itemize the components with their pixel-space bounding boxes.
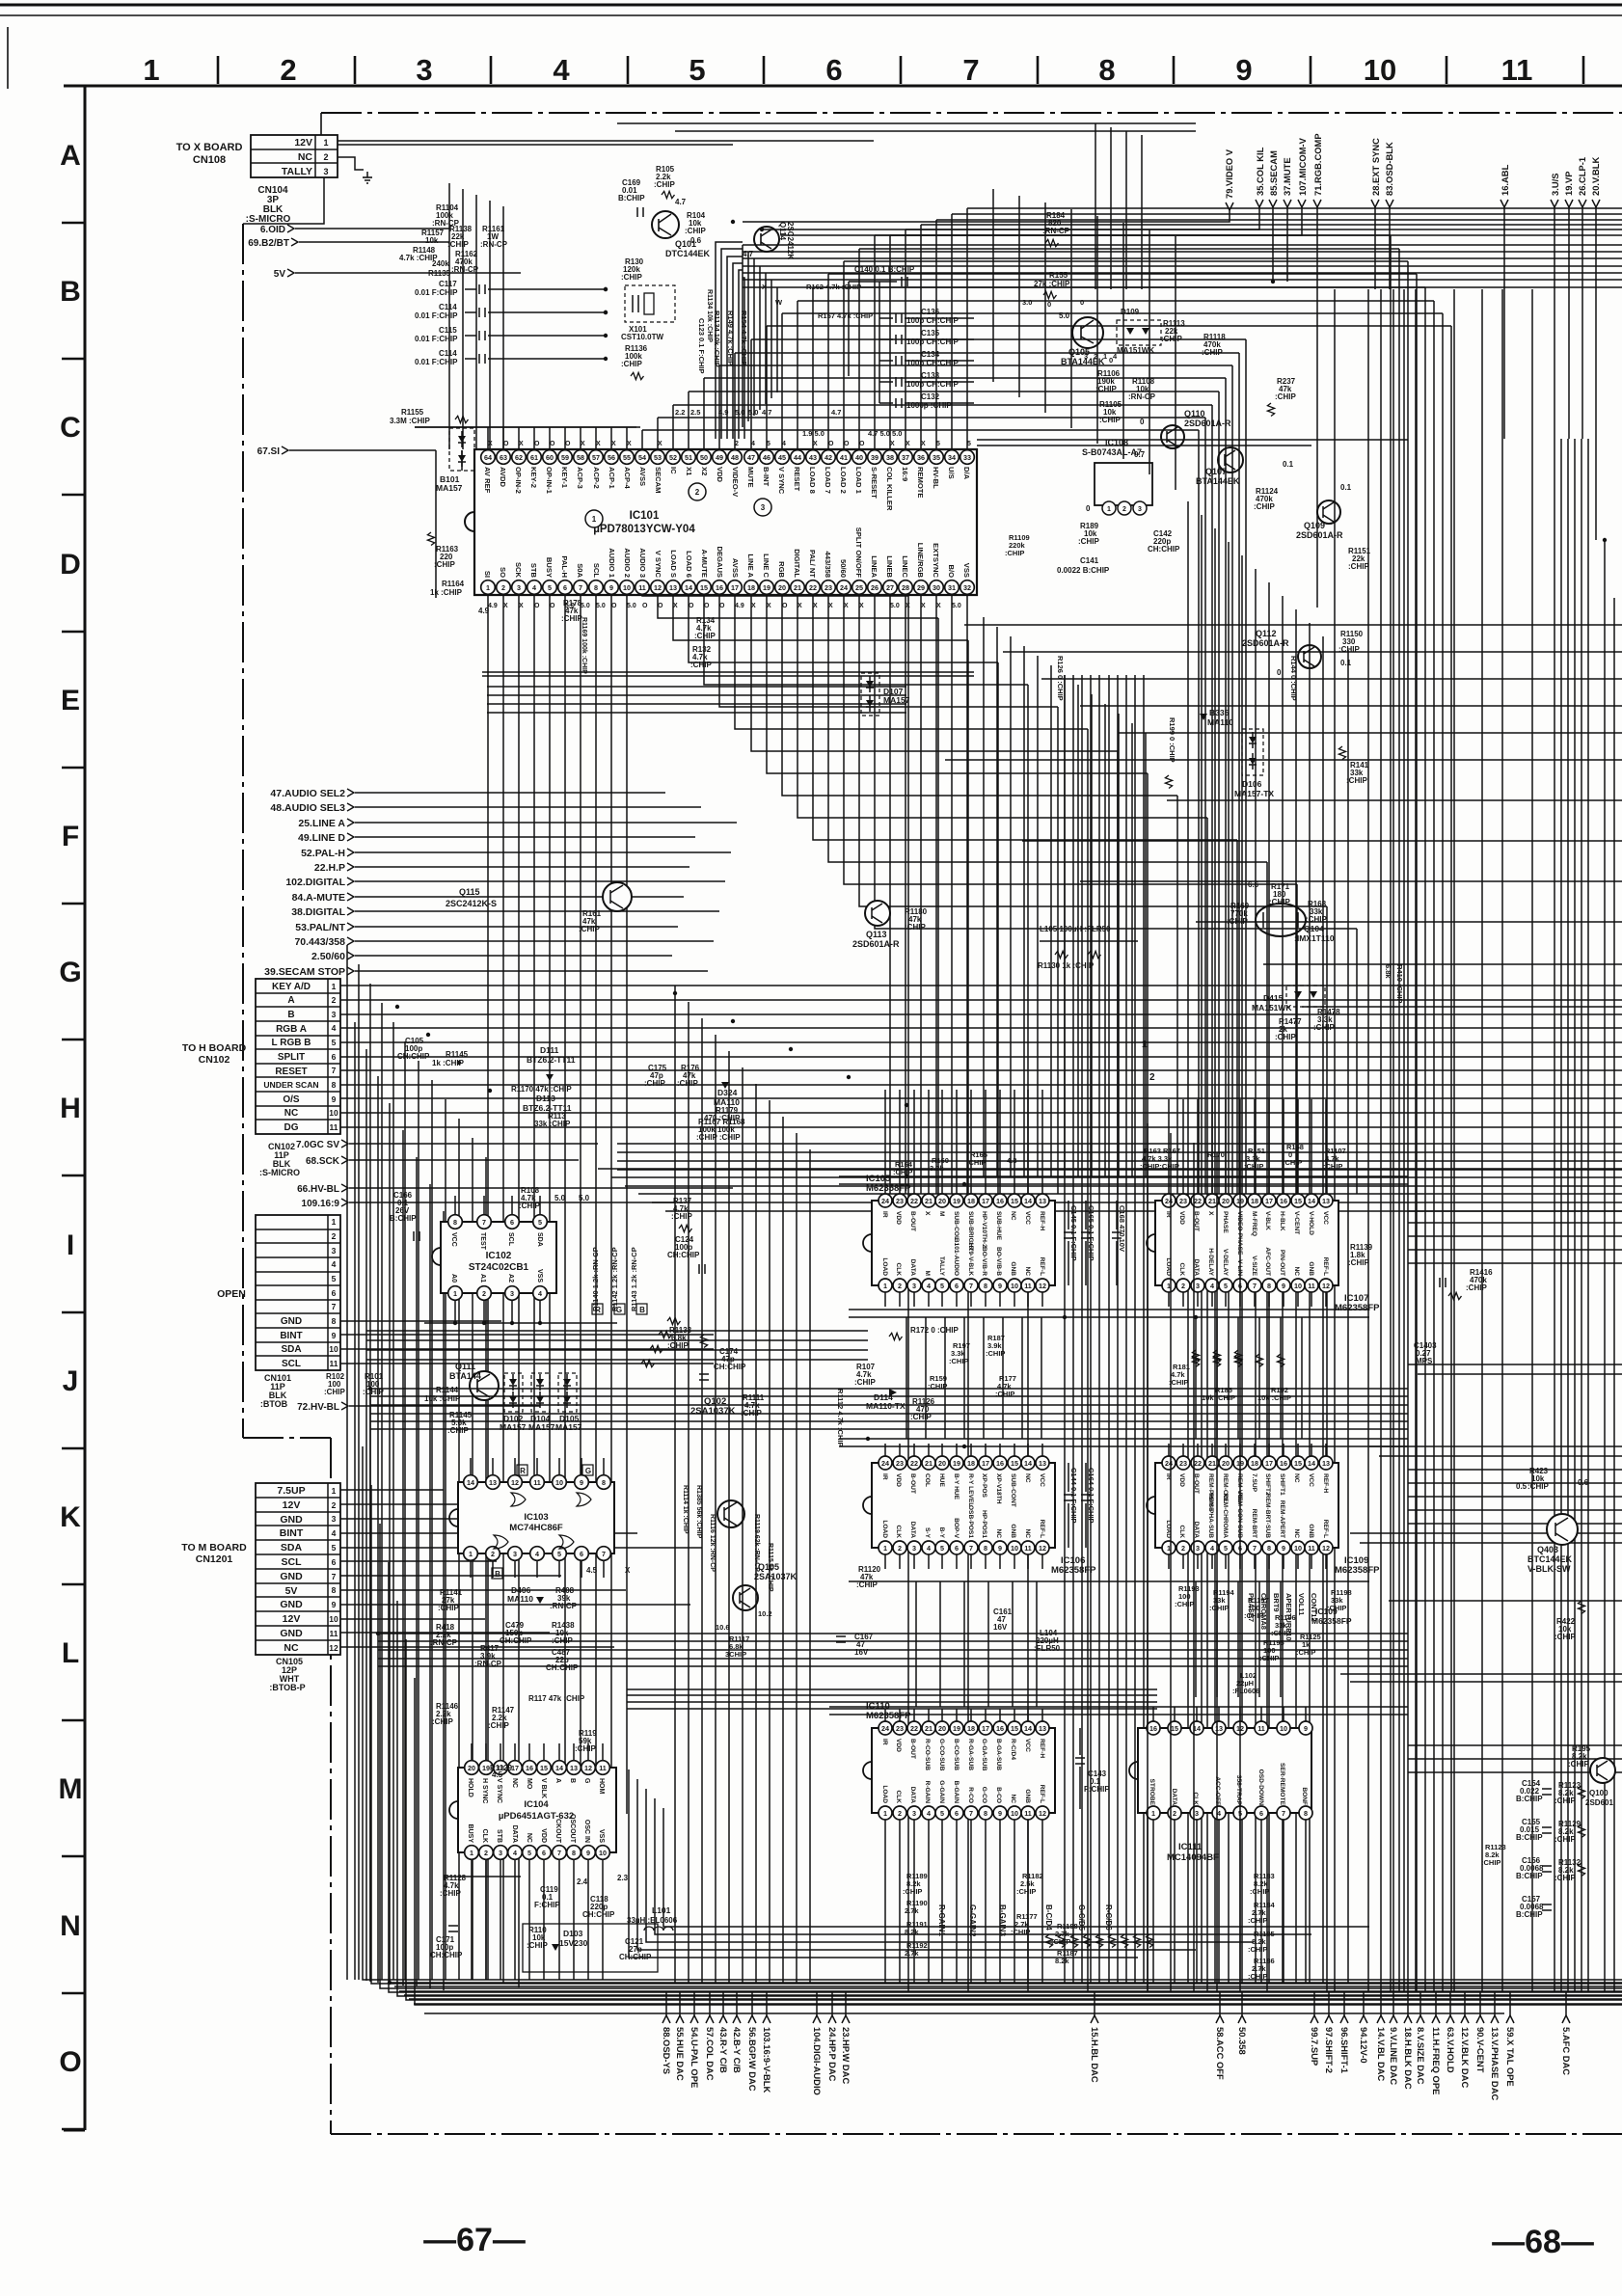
- svg-text:F:CHIP: F:CHIP: [534, 1901, 560, 1909]
- svg-text:R-C/D6: R-C/D6: [1104, 1904, 1113, 1931]
- svg-text:R172 0 :CHIP: R172 0 :CHIP: [910, 1326, 959, 1335]
- svg-text:9: 9: [998, 1544, 1002, 1553]
- svg-text:84.A-MUTE: 84.A-MUTE: [292, 892, 345, 904]
- svg-text:64: 64: [484, 453, 492, 462]
- svg-text:S0A: S0A: [576, 563, 584, 578]
- svg-text:Q113: Q113: [866, 930, 887, 939]
- scan edge top lines: [0, 4, 1622, 7]
- svg-text:REM-CHROMA: REM-CHROMA: [1222, 1493, 1229, 1538]
- wire bus verticals into network: [448, 183, 450, 449]
- svg-text:0.1: 0.1: [1283, 460, 1294, 469]
- svg-text:0.0022 B:CHIP: 0.0022 B:CHIP: [1057, 566, 1110, 575]
- svg-text:63: 63: [500, 453, 507, 462]
- svg-text::CHIP: :CHIP: [949, 1357, 968, 1365]
- svg-text::CHIP: :CHIP: [1554, 1835, 1576, 1844]
- crystal X101: [625, 285, 675, 322]
- svg-text:4: 4: [927, 1809, 931, 1818]
- left vertical wires: [354, 1022, 356, 1980]
- svg-text::CHIP: :CHIP: [1327, 1604, 1346, 1612]
- svg-text:B: B: [569, 1778, 576, 1783]
- svg-text:10: 10: [329, 1614, 338, 1624]
- svg-text:M62358FP: M62358FP: [1335, 1303, 1380, 1313]
- output 5.AFC DAC: [1565, 1992, 1567, 2015]
- svg-text:Q100: Q100: [1589, 1789, 1608, 1797]
- svg-text:24: 24: [881, 1197, 889, 1205]
- svg-text:2: 2: [280, 53, 296, 87]
- svg-text:9.V.LINE DAC: 9.V.LINE DAC: [1389, 2027, 1399, 2085]
- svg-text::CHIP: :CHIP: [677, 1079, 698, 1088]
- svg-text:TO M BOARD: TO M BOARD: [181, 1542, 247, 1553]
- upper nest left verticals: [742, 245, 743, 427]
- svg-text:49.LINE D: 49.LINE D: [298, 832, 345, 844]
- svg-text:1: 1: [883, 1282, 887, 1290]
- svg-text:18: 18: [1251, 1459, 1258, 1468]
- svg-text:2: 2: [898, 1282, 902, 1290]
- svg-text:R144 0 :CHIP: R144 0 :CHIP: [1289, 656, 1298, 701]
- extra verticals right mid: [1187, 501, 1189, 1983]
- svg-text:DG: DG: [284, 1122, 299, 1133]
- svg-text:K: K: [60, 1501, 81, 1533]
- svg-text:4: 4: [332, 1259, 337, 1269]
- output 56.BGP.W DAC: [751, 1992, 753, 2015]
- svg-text:X2: X2: [700, 467, 709, 475]
- svg-text:IR: IR: [881, 1473, 888, 1480]
- svg-text:71.RGB.COMP: 71.RGB.COMP: [1312, 133, 1323, 196]
- svg-text:11: 11: [330, 1629, 338, 1638]
- svg-text:2: 2: [482, 1289, 486, 1298]
- svg-text:SI: SI: [483, 571, 492, 578]
- svg-text:A1: A1: [479, 1274, 486, 1283]
- svg-text:5.0: 5.0: [890, 603, 900, 609]
- svg-text:22: 22: [1194, 1459, 1202, 1468]
- svg-text:79.VIDEO V: 79.VIDEO V: [1224, 149, 1234, 199]
- svg-text:40: 40: [855, 453, 863, 462]
- svg-text:28.EXT SYNC: 28.EXT SYNC: [1370, 138, 1381, 196]
- svg-text:IC: IC: [669, 467, 678, 474]
- svg-text:0: 0: [1086, 504, 1091, 513]
- svg-text:D415: D415: [1263, 993, 1284, 1003]
- svg-text:V-DELAY: V-DELAY: [1222, 1249, 1229, 1277]
- off-page 85.SECAM: [1269, 200, 1277, 207]
- svg-text:35: 35: [933, 453, 940, 462]
- svg-text:17: 17: [1265, 1459, 1273, 1468]
- svg-text:3: 3: [416, 53, 432, 87]
- IC IC110 pin stubs: [884, 1709, 886, 1721]
- svg-text:REF-L: REF-L: [1039, 1257, 1045, 1276]
- svg-text:4: 4: [927, 1282, 931, 1290]
- svg-text:4: 4: [927, 1544, 931, 1553]
- svg-text:4: 4: [538, 1289, 542, 1298]
- svg-text:97.SHIFT-2: 97.SHIFT-2: [1324, 2027, 1335, 2073]
- svg-text::RN-CP: :RN-CP: [1128, 392, 1156, 401]
- svg-text:TO X BOARD: TO X BOARD: [176, 142, 243, 153]
- op-amp IC101 body: [474, 449, 977, 595]
- right area horizontals rows J-L: [1408, 1364, 1622, 1365]
- right descenders from horizontal runs: [1198, 430, 1200, 1194]
- svg-text:AFC-OUT: AFC-OUT: [1264, 1247, 1271, 1276]
- svg-text:38: 38: [886, 453, 894, 462]
- svg-text:39: 39: [871, 453, 879, 462]
- svg-text:2SC2412K: 2SC2412K: [786, 222, 795, 259]
- svg-text:10k: 10k: [425, 236, 439, 245]
- output 58.ACC OFF: [1219, 1992, 1221, 2015]
- svg-text:B-GAIN3: B-GAIN3: [998, 1904, 1007, 1936]
- svg-text:AUDIO 1: AUDIO 1: [608, 548, 616, 579]
- svg-text:2: 2: [332, 1500, 337, 1510]
- svg-text:8.2k: 8.2k: [1055, 1957, 1069, 1965]
- svg-text:11: 11: [1024, 1809, 1032, 1818]
- svg-text:W: W: [775, 298, 783, 307]
- svg-text:C145 0.1 F:CHIP: C145 0.1 F:CHIP: [1069, 1205, 1078, 1261]
- svg-text:OSD-DOWN: OSD-DOWN: [1257, 1769, 1264, 1806]
- svg-text:NC: NC: [284, 1108, 298, 1119]
- output 97.SHIFT-2: [1328, 1992, 1330, 2015]
- IC102 pin wires: [454, 1196, 456, 1214]
- svg-text:2: 2: [1149, 1072, 1155, 1083]
- svg-text:—67—: —67—: [423, 2222, 526, 2258]
- svg-text:REF-L: REF-L: [1322, 1257, 1329, 1276]
- svg-text:B-OUT: B-OUT: [909, 1211, 916, 1231]
- svg-text:7: 7: [969, 1544, 973, 1553]
- svg-text:18: 18: [967, 1459, 975, 1468]
- svg-text:CST10.0TW: CST10.0TW: [621, 333, 663, 341]
- svg-text:13: 13: [570, 1764, 578, 1772]
- svg-text:MA157: MA157: [883, 695, 910, 705]
- IC101 bottom pins 1-32: [481, 581, 496, 595]
- svg-text:18: 18: [1251, 1197, 1258, 1205]
- svg-text::CHIP: :CHIP: [621, 360, 642, 368]
- svg-text:COL: COL: [924, 1473, 931, 1487]
- svg-text:6.8k: 6.8k: [1384, 964, 1392, 979]
- diode D109 MA151WK: [1117, 320, 1161, 345]
- svg-text:LINEC: LINEC: [901, 555, 909, 578]
- svg-text::CHIP: :CHIP: [694, 632, 716, 640]
- capacitor C143 between IC110 IC111: [1079, 1728, 1081, 1755]
- extra horizontals H-I rows: [598, 1168, 1622, 1170]
- svg-text:2SD601A-R: 2SD601A-R: [852, 939, 900, 949]
- svg-text:XP-POS: XP-POS: [981, 1473, 987, 1499]
- svg-text:LINE C: LINE C: [762, 554, 770, 578]
- off-page 19.VP: [1565, 200, 1573, 207]
- svg-text:LOAD 1: LOAD 1: [854, 467, 863, 495]
- svg-text:MA157: MA157: [436, 483, 463, 493]
- extra horizontals below IC101: [487, 686, 906, 688]
- svg-text:A-MUTE: A-MUTE: [700, 549, 709, 578]
- bundle rows K-L: [378, 1633, 1408, 1634]
- output 90.V-CENT: [1479, 1992, 1481, 2015]
- svg-text::CHIP: :CHIP: [519, 1202, 540, 1210]
- svg-text:5: 5: [332, 1274, 337, 1283]
- svg-text:13: 13: [1322, 1197, 1330, 1205]
- svg-text:REF-L: REF-L: [1039, 1785, 1045, 1803]
- svg-text:42.B-Y C/B: 42.B-Y C/B: [732, 2027, 743, 2073]
- svg-text:NC: NC: [1293, 1266, 1300, 1276]
- svg-text:HOM: HOM: [598, 1778, 605, 1795]
- top right risers: [1095, 123, 1096, 289]
- svg-text:83.OSD-BLK: 83.OSD-BLK: [1384, 142, 1394, 196]
- svg-text:9: 9: [332, 1331, 337, 1340]
- svg-text:HUE: HUE: [938, 1473, 945, 1488]
- svg-text:14: 14: [555, 1764, 563, 1772]
- svg-text:20: 20: [1222, 1197, 1230, 1205]
- svg-text:HV-BL: HV-BL: [932, 467, 940, 489]
- svg-text:G-CO: G-CO: [981, 1787, 987, 1803]
- svg-text:12V: 12V: [294, 137, 312, 149]
- svg-text:NC: NC: [1010, 1211, 1016, 1221]
- svg-text:R162 4.7k :CHIP: R162 4.7k :CHIP: [806, 283, 861, 291]
- svg-text:ACP-2: ACP-2: [592, 467, 601, 489]
- capacitors between IC105 and IC107: [1068, 1201, 1069, 1229]
- svg-text:OP-IN-2: OP-IN-2: [514, 467, 523, 494]
- connector OPEN table: [256, 1215, 340, 1370]
- svg-text:CH:CHIP: CH:CHIP: [430, 1951, 463, 1959]
- svg-text:11: 11: [1308, 1544, 1315, 1553]
- svg-text:VDD: VDD: [895, 1473, 902, 1487]
- svg-text:B-GAIN: B-GAIN: [953, 1781, 960, 1804]
- svg-text::CHIP: :CHIP: [579, 925, 600, 933]
- svg-text:21: 21: [1208, 1459, 1216, 1468]
- svg-text:1: 1: [332, 982, 337, 991]
- svg-text:16: 16: [996, 1724, 1004, 1733]
- svg-text:10: 10: [329, 1108, 338, 1118]
- svg-text:STB: STB: [496, 1829, 502, 1843]
- svg-text:REF-H: REF-H: [1039, 1211, 1045, 1230]
- svg-text:5: 5: [538, 1218, 542, 1227]
- svg-text:GNB: GNB: [1308, 1524, 1314, 1538]
- svg-text:0.01 F:CHIP: 0.01 F:CHIP: [415, 335, 458, 343]
- svg-text:OP-IN-1: OP-IN-1: [545, 467, 554, 495]
- output 96.SHIFT-1: [1343, 1992, 1345, 2015]
- svg-text:16V: 16V: [854, 1648, 869, 1657]
- svg-text:RESET: RESET: [275, 1067, 307, 1077]
- svg-text:10: 10: [1294, 1544, 1302, 1553]
- far right vertical bus: [1334, 289, 1336, 1992]
- svg-text:NC: NC: [298, 151, 313, 163]
- svg-text:240k: 240k: [432, 259, 449, 268]
- svg-text:NC: NC: [1024, 1473, 1031, 1483]
- svg-text:15: 15: [700, 583, 708, 592]
- svg-text:DTC144EK: DTC144EK: [665, 249, 711, 258]
- svg-text:5.0: 5.0: [596, 603, 606, 609]
- IC101 ref bubble 2: [689, 483, 706, 500]
- svg-text:AV REF: AV REF: [483, 467, 492, 494]
- off-page 20.V.BLK: [1592, 200, 1600, 207]
- svg-text:B: B: [495, 1570, 500, 1579]
- svg-text::IMX1T110: :IMX1T110: [1294, 933, 1335, 943]
- svg-text:58: 58: [577, 453, 584, 462]
- svg-text:10: 10: [1280, 1724, 1287, 1733]
- svg-text:4.7: 4.7: [675, 198, 687, 206]
- svg-text:26.CLP-1: 26.CLP-1: [1577, 157, 1587, 196]
- svg-text::CHIP: :CHIP: [905, 923, 926, 932]
- bottom-left nest rectangles: [363, 1446, 1622, 1980]
- svg-text:M-FREQ: M-FREQ: [1251, 1211, 1257, 1236]
- svg-text:O: O: [611, 603, 617, 609]
- output 43.R-Y C/B: [722, 1992, 724, 2015]
- svg-text:MUTE: MUTE: [746, 467, 755, 488]
- svg-text:3: 3: [517, 583, 521, 592]
- svg-text:20: 20: [938, 1724, 946, 1733]
- svg-text:13: 13: [1215, 1724, 1223, 1733]
- svg-text:14: 14: [1024, 1197, 1032, 1205]
- svg-text:60: 60: [546, 453, 554, 462]
- off-page 28.EXT SYNC: [1371, 200, 1379, 207]
- svg-text:70.443/358: 70.443/358: [294, 936, 345, 948]
- svg-text:D103: D103: [563, 1929, 583, 1938]
- svg-text:IR: IR: [881, 1739, 888, 1745]
- svg-text::CHIP: :CHIP: [438, 1604, 459, 1612]
- board boundary chain left lower: [330, 1438, 332, 2134]
- svg-text:63.V.HOLD: 63.V.HOLD: [1446, 2027, 1456, 2073]
- svg-text:3: 3: [323, 167, 328, 176]
- svg-text:NC: NC: [1293, 1473, 1300, 1483]
- svg-text:2: 2: [332, 1231, 337, 1241]
- IC IC106 body: [872, 1463, 1055, 1548]
- svg-text:6: 6: [332, 1288, 337, 1298]
- svg-text:17: 17: [982, 1459, 989, 1468]
- svg-text:5: 5: [689, 53, 705, 87]
- svg-text:REF-H: REF-H: [1039, 1739, 1045, 1758]
- svg-text:16: 16: [526, 1764, 533, 1772]
- transistor Q107: [1218, 447, 1243, 473]
- svg-text:12: 12: [584, 1764, 592, 1772]
- svg-text:28: 28: [902, 583, 909, 592]
- svg-text:0.01 F:CHIP: 0.01 F:CHIP: [415, 358, 458, 366]
- svg-text:B-Y HUE: B-Y HUE: [953, 1473, 960, 1500]
- svg-text:8: 8: [984, 1544, 987, 1553]
- svg-text::CHIP: :CHIP: [1169, 1378, 1188, 1387]
- svg-text::CHIP: :CHIP: [1283, 1158, 1302, 1167]
- svg-text:30: 30: [933, 583, 940, 592]
- svg-text:MPS: MPS: [1416, 1357, 1433, 1365]
- svg-text:VCC: VCC: [1024, 1211, 1031, 1225]
- svg-text:9: 9: [1282, 1544, 1285, 1553]
- mid vertical wires below IC row 1: [906, 1317, 907, 1439]
- svg-text:CH:CHIP: CH:CHIP: [582, 1910, 615, 1919]
- svg-text:2: 2: [1181, 1544, 1185, 1553]
- IC IC106 top pins: [879, 1456, 892, 1470]
- svg-text:25.LINE A: 25.LINE A: [298, 818, 345, 829]
- svg-text:LOAD: LOAD: [881, 1257, 888, 1276]
- svg-text:23: 23: [1179, 1197, 1187, 1205]
- svg-text:0: 0: [1047, 300, 1051, 309]
- svg-text::CHIP: :CHIP: [1078, 537, 1099, 546]
- svg-text:4: 4: [553, 53, 570, 87]
- svg-text:103.16:9-V-BLK: 103.16:9-V-BLK: [762, 2027, 772, 2093]
- svg-text:5.0: 5.0: [581, 603, 590, 609]
- svg-text:VDD: VDD: [1178, 1473, 1185, 1487]
- svg-text:22: 22: [910, 1197, 918, 1205]
- svg-text:7: 7: [602, 1550, 606, 1558]
- svg-text:2.7k: 2.7k: [905, 1906, 919, 1915]
- svg-text:16: 16: [996, 1459, 1004, 1468]
- svg-text:56.BGP.W DAC: 56.BGP.W DAC: [747, 2027, 758, 2092]
- svg-text:DATA: DATA: [909, 1522, 916, 1539]
- svg-text:23.HP.W DAC: 23.HP.W DAC: [841, 2027, 852, 2084]
- svg-text:L RGB B: L RGB B: [272, 1038, 311, 1048]
- svg-text:BONF: BONF: [1301, 1787, 1308, 1805]
- svg-text:37: 37: [902, 453, 909, 462]
- svg-text:4: 4: [1210, 1282, 1214, 1290]
- svg-text:15: 15: [540, 1764, 548, 1772]
- IC IC106 bottom pins: [879, 1541, 892, 1554]
- svg-text:3: 3: [332, 1010, 337, 1019]
- svg-text:M62358FP: M62358FP: [1311, 1616, 1352, 1626]
- svg-text:3: 3: [499, 1849, 502, 1857]
- svg-text:2.3: 2.3: [617, 1874, 629, 1882]
- IC111 top pins: [1147, 1721, 1160, 1735]
- mid vertical wires below IC row 2: [915, 1581, 917, 1707]
- svg-text:0.1: 0.1: [1340, 483, 1352, 492]
- svg-text:15: 15: [1011, 1724, 1018, 1733]
- svg-text:12: 12: [654, 583, 662, 592]
- svg-text:IC101: IC101: [630, 510, 660, 522]
- svg-text:27: 27: [886, 583, 894, 592]
- svg-text:21: 21: [794, 583, 801, 592]
- IC101 top pin risers: [487, 427, 489, 449]
- output 50.358: [1241, 1992, 1243, 2015]
- output 88.OSD-YS: [665, 1992, 667, 2015]
- svg-text:REM-PHA-SUB: REM-PHA-SUB: [1207, 1493, 1214, 1538]
- extra verticals between mid ICs: [1064, 675, 1066, 1983]
- svg-text:24: 24: [1165, 1197, 1173, 1205]
- svg-text:8: 8: [1267, 1282, 1271, 1290]
- svg-text:48.AUDIO SEL3: 48.AUDIO SEL3: [270, 802, 345, 814]
- leader line from bubble 1: [602, 526, 652, 575]
- IC104 nest rectangles: [629, 1769, 1138, 1958]
- svg-text:34: 34: [948, 453, 956, 462]
- IC104 pin stubs: [471, 1743, 473, 1760]
- svg-text:0.6: 0.6: [1578, 1478, 1589, 1487]
- svg-text:3: 3: [912, 1544, 916, 1553]
- svg-text:SCK: SCK: [514, 562, 523, 579]
- svg-text:12: 12: [1039, 1809, 1046, 1818]
- svg-text:LINE/RGB: LINE/RGB: [916, 543, 925, 579]
- svg-text:14: 14: [1308, 1459, 1315, 1468]
- svg-text:SDA: SDA: [281, 1542, 303, 1553]
- svg-text:R1164: R1164: [442, 580, 465, 588]
- transistor E-row Q115: [603, 882, 632, 911]
- svg-text:21: 21: [1208, 1197, 1216, 1205]
- output 13.V.PHASE DAC: [1494, 1992, 1496, 2015]
- bus rail above IC101 left: [415, 426, 640, 428]
- svg-text:R1135: R1135: [428, 269, 451, 278]
- svg-text::RN-CP: :RN-CP: [451, 265, 479, 274]
- svg-text:8: 8: [332, 1316, 337, 1326]
- svg-text:R1134 10k :CHIP: R1134 10k :CHIP: [706, 289, 713, 342]
- svg-text::CHIP: :CHIP: [1275, 1033, 1296, 1041]
- bundle rows J-K: [370, 1388, 1408, 1390]
- svg-text:11: 11: [1257, 1724, 1265, 1733]
- svg-text:SO: SO: [499, 567, 507, 578]
- svg-text:1: 1: [332, 1217, 337, 1227]
- horizontal bundle upper right H1: [743, 244, 1622, 246]
- bus rails below IC106 IC109: [849, 1580, 1369, 1582]
- IC IC109 bottom pins: [1162, 1541, 1176, 1554]
- IC111 bottom pins: [1147, 1806, 1160, 1820]
- svg-text:1: 1: [486, 583, 490, 592]
- svg-text:6: 6: [510, 1218, 514, 1227]
- svg-text:2: 2: [1181, 1282, 1185, 1290]
- svg-text:1: 1: [470, 1849, 473, 1857]
- svg-text:5.0: 5.0: [748, 408, 758, 417]
- svg-text:SER-REMOTE: SER-REMOTE: [1279, 1763, 1285, 1806]
- svg-text:R1170 47k :CHIP: R1170 47k :CHIP: [511, 1085, 572, 1094]
- svg-text:47: 47: [747, 453, 755, 462]
- svg-text:3: 3: [1196, 1282, 1200, 1290]
- svg-text:12: 12: [1039, 1282, 1046, 1290]
- svg-text:REM-BRT-SUB: REM-BRT-SUB: [1264, 1494, 1271, 1538]
